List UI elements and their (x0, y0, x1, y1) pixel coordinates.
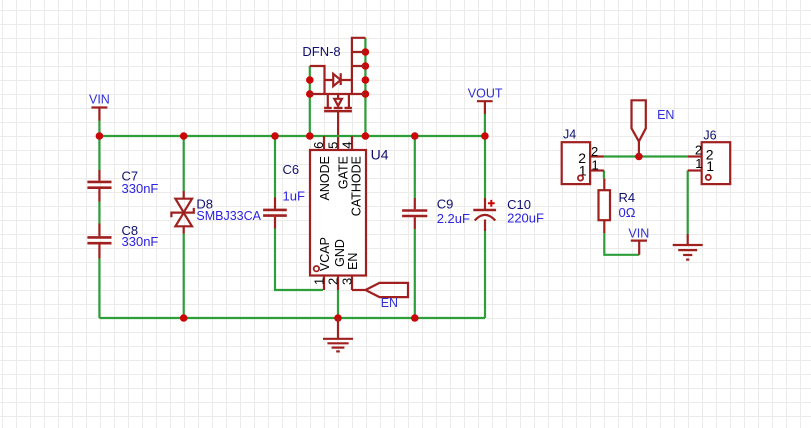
wire: R4 bottom to VIN flag (604, 233, 639, 255)
svg-text:DFN-8: DFN-8 (302, 44, 340, 59)
svg-text:330nF: 330nF (122, 234, 159, 249)
net flag EN (top right, at J4/J6 wire) (632, 100, 675, 156)
svg-text:VOUT: VOUT (468, 86, 503, 100)
capacitor C7 330nF (87, 169, 158, 202)
ground (J6 pin 1) (673, 234, 703, 260)
TVS diode D8 SMBJ33CA (171, 191, 261, 234)
U4 pin 5 GATE (326, 142, 351, 190)
wire: C6 to U4 pin 1 (VCAP) (275, 229, 323, 291)
U4 pin 1 indicator circle (314, 266, 319, 271)
wire: rail to C9 (414, 136, 416, 198)
wire: C10 to bottom rail (484, 231, 486, 318)
svg-text:1uF: 1uF (283, 188, 305, 203)
wire: GND bottom rail (99, 317, 485, 319)
junction: Q1 drain bus pin 8 (362, 48, 370, 56)
transistor Q1 MOSFET DFN-8 (310, 38, 366, 111)
svg-text:U4: U4 (371, 147, 389, 163)
wire: U4 gate line from Q1 gate down to pin 5 (crosses VIN rail) (337, 111, 339, 150)
svg-text:VIN: VIN (628, 227, 649, 241)
junction: VOUT rail at C9 (411, 132, 419, 140)
wire: C8 to bottom rail (98, 259, 100, 319)
svg-text:C6: C6 (283, 162, 300, 177)
junction: bottom rail at D8 (180, 314, 188, 322)
svg-text:VIN: VIN (89, 92, 110, 106)
svg-text:1: 1 (312, 278, 327, 285)
wire: Q1 drain bus (right) (364, 38, 366, 136)
resistor R4 0ohm (599, 178, 636, 233)
wire: rail to C10 (484, 136, 486, 198)
junction: Q1 source bus upper (306, 76, 314, 84)
svg-text:2.2uF: 2.2uF (437, 211, 470, 226)
wire: rail to D8 (183, 136, 185, 191)
svg-text:330nF: 330nF (122, 181, 159, 196)
svg-text:4: 4 (339, 142, 354, 149)
wire: J4 pin 1 elbow down to R4 (603, 171, 605, 179)
wire: D8 to bottom rail (183, 234, 185, 319)
junction: EN net at flag (635, 153, 643, 161)
wire: J4 pin 2 to J6 pin 2 (EN net) (604, 155, 688, 157)
U4 pin 6 ANODE (311, 136, 332, 200)
power flag VIN (left) (89, 92, 110, 120)
capacitor C8 330nF (87, 223, 158, 259)
junction: VIN rail at Q1 source bus (306, 132, 314, 140)
svg-text:C9: C9 (437, 196, 454, 211)
wire: VOUT supply stem to rail (484, 114, 486, 136)
svg-text:J6: J6 (703, 129, 716, 143)
power flag VIN (right) (628, 227, 649, 255)
J4 pin 1 (590, 157, 604, 172)
wire: C9 to bottom rail (414, 229, 416, 318)
svg-text:3: 3 (339, 278, 354, 285)
wire: C7 to C8 (98, 202, 100, 224)
junction: VIN rail at C6 (271, 132, 279, 140)
svg-text:6: 6 (311, 142, 326, 149)
junction: Q1 drain bus pin 6 (362, 76, 370, 84)
svg-text:0Ω: 0Ω (619, 205, 636, 220)
svg-text:EN: EN (381, 296, 398, 310)
junction: Q1 drain bus pin 5 (362, 90, 370, 98)
capacitor C10 220uF polarized (473, 197, 544, 231)
svg-text:GND: GND (333, 239, 347, 267)
svg-text:EN: EN (657, 108, 674, 122)
svg-text:1: 1 (695, 156, 702, 171)
junction: bottom rail at C9 (411, 314, 419, 322)
svg-text:VCAP: VCAP (318, 237, 332, 271)
U4 pin 4 CATHODE (339, 136, 363, 216)
junction: Q1 source bus lower (306, 90, 314, 98)
wire: rail to C7 (98, 136, 100, 170)
ground (U4 GND) (323, 318, 353, 351)
J4 pin 2 (590, 144, 604, 159)
connector J6 (mirrored) (702, 129, 731, 185)
connector J4 (562, 128, 590, 184)
svg-text:220uF: 220uF (507, 211, 544, 226)
svg-text:R4: R4 (619, 190, 636, 205)
capacitor C9 2.2uF (402, 196, 470, 229)
J6 pin 1 (688, 156, 703, 171)
U4 pin 1 VCAP (312, 237, 332, 290)
junction: Q1 drain bus pin 7 (362, 62, 370, 70)
junction: VOUT rail at C10/VOUT (481, 132, 489, 140)
U4 pin 3 EN (339, 253, 360, 290)
svg-text:1: 1 (706, 158, 714, 174)
wire: J6 pin 1 down to ground (687, 171, 689, 235)
net flag EN (at U4 pin 3) (352, 283, 408, 310)
wire: Q1 source bus (left) (309, 66, 311, 136)
svg-text:J4: J4 (563, 128, 576, 142)
svg-text:CATHODE: CATHODE (349, 156, 363, 216)
svg-text:C10: C10 (507, 197, 531, 212)
wire: rail to C6 (274, 136, 276, 198)
wire: VIN top rail (99, 135, 485, 137)
wire: U4 pin 2 (GND) down to bottom rail (337, 290, 339, 318)
capacitor C6 1uF (263, 162, 305, 229)
junction: bottom rail at U4 GND (334, 314, 342, 322)
svg-text:EN: EN (346, 253, 360, 270)
junction: VIN rail at D8 (180, 132, 188, 140)
U4 pin 2 GND (326, 239, 347, 290)
power flag VOUT (468, 86, 503, 114)
svg-text:1: 1 (592, 157, 599, 172)
wire: VIN supply stem to rail (98, 121, 100, 137)
svg-text:SMBJ33CA: SMBJ33CA (196, 209, 261, 223)
svg-text:ANODE: ANODE (318, 156, 332, 200)
op-amp/controller U4 body (310, 150, 366, 276)
junction: VIN rail at Q1 drain bus (362, 132, 370, 140)
junction: VIN rail at C7 (96, 132, 104, 140)
J6 pin 2 (688, 142, 702, 157)
